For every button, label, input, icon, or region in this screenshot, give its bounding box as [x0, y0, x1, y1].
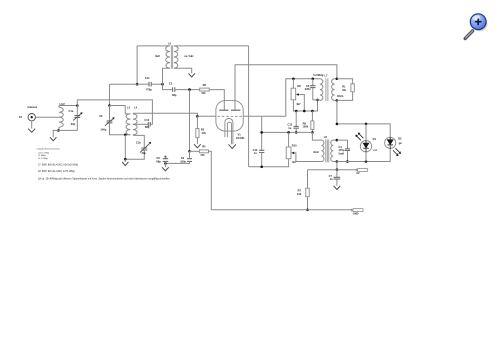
wire C11 to L5 bottom	[151, 83, 162, 85]
connector X2	[352, 209, 354, 211]
wire C1a bottom lead	[58, 117, 77, 130]
wire to R10	[288, 132, 290, 147]
capacitor C4	[345, 149, 350, 151]
core L8	[326, 140, 329, 163]
inductor L4	[133, 114, 137, 135]
potentiometer R8	[291, 88, 296, 100]
inductor L7 primary	[320, 79, 323, 101]
capacitor C3	[173, 87, 175, 92]
LED D1	[360, 141, 371, 152]
svg-text:L1/2: 1+5Wdg: L1/2: 1+5Wdg	[38, 152, 49, 154]
wire rail to R8	[292, 79, 294, 88]
svg-text:C10: C10	[144, 118, 149, 122]
junction C12 bottom	[295, 131, 298, 134]
wire S1 rail	[308, 169, 357, 171]
core L5/L6	[171, 45, 172, 69]
junction R4 left	[188, 150, 191, 153]
wire node to C2 branch	[110, 83, 138, 85]
junction D1 bottom	[365, 160, 368, 163]
ground L6	[189, 73, 195, 77]
svg-text:68p: 68p	[156, 160, 161, 164]
svg-text:10k: 10k	[297, 192, 302, 196]
wire to C4	[337, 140, 348, 149]
wire to C12	[295, 111, 297, 126]
junction C1b return	[124, 158, 127, 161]
wire R10 wiper to L8 bottom	[295, 153, 322, 162]
junction R7 return	[306, 209, 309, 212]
wire C7 to ground	[336, 179, 338, 186]
svg-text:68p: 68p	[145, 125, 150, 129]
cathode down arrow	[229, 144, 236, 148]
junction grid	[196, 115, 199, 118]
junction L8 top	[336, 139, 339, 142]
svg-text:9V: 9V	[356, 171, 359, 175]
wire L1 bottom stub	[58, 127, 60, 130]
junction C11 left	[136, 83, 139, 86]
wire L1 top to node	[59, 105, 77, 107]
junction speaker bottom	[336, 99, 339, 102]
svg-text:5+5Wdg: 5+5Wdg	[313, 73, 323, 77]
svg-text:470p: 470p	[146, 88, 152, 92]
wire C9 return	[165, 161, 189, 163]
svg-text:4k7: 4k7	[296, 102, 301, 106]
wire L5 top lead	[137, 45, 170, 47]
wire L6 bottom to ground	[174, 68, 192, 73]
svg-text:20p: 20p	[71, 122, 76, 126]
inductor L3	[126, 114, 130, 135]
svg-text:D1: D1	[373, 137, 377, 141]
svg-text:68p: 68p	[172, 93, 177, 97]
capacitor C6	[310, 86, 315, 88]
wire C2 bottom lead to L3 bottom	[110, 123, 131, 135]
resistor R4	[199, 150, 208, 153]
connector S1	[356, 169, 358, 171]
svg-text:V1: V1	[238, 133, 242, 137]
wire long rail x189	[189, 90, 191, 152]
capacitor C2	[107, 121, 113, 123]
svg-text:470p: 470p	[339, 148, 345, 152]
svg-text:220n: 220n	[305, 87, 311, 91]
svg-text:D2: D2	[398, 136, 402, 140]
svg-text:1n: 1n	[330, 177, 333, 181]
capacitor C12	[294, 126, 299, 128]
wiper arrow R10	[291, 152, 294, 155]
wire C8 bottom lead	[164, 161, 166, 163]
svg-text:47k: 47k	[202, 131, 207, 135]
ground tank	[122, 162, 128, 166]
wire to S1 rail	[336, 162, 338, 170]
magnifier zoom icon	[465, 14, 487, 39]
svg-text:C2: C2	[99, 114, 103, 118]
wire C1a top rail to C10	[77, 100, 152, 124]
wire speaker loop bottom	[337, 92, 353, 101]
wire L5 bottom lead	[163, 68, 170, 84]
D1 light arrows	[357, 134, 364, 140]
wire L3 bottom to C1b rail	[124, 135, 126, 159]
svg-text:47k: 47k	[200, 153, 205, 157]
wire R5 to ground	[196, 138, 198, 145]
wire grid to tube	[197, 115, 216, 117]
svg-text:L4: 2+2Wdg: L4: 2+2Wdg	[38, 158, 48, 160]
junction L5 bottom	[161, 83, 164, 86]
svg-text:1n: 1n	[254, 151, 257, 155]
svg-text:C1b: C1b	[136, 140, 141, 144]
wire L6 top rail	[174, 45, 249, 47]
svg-text:8Ω: 8Ω	[342, 88, 346, 92]
ground C7	[334, 186, 341, 190]
svg-text:L8 ca. 15+40Wdg auf offenem Sp: L8 ca. 15+40Wdg auf offenem Spulenkörper…	[38, 178, 170, 181]
svg-text:C3: C3	[169, 81, 173, 85]
junction speaker top	[336, 78, 339, 81]
antenna connector K1	[28, 114, 35, 121]
svg-text:L8: 5W8, 9x6 (AL=400): 2x75 4W: L8: 5W8, 9x6 (AL=400): 2x75 4Wdg	[38, 170, 75, 173]
wire R8 wiper down	[299, 95, 304, 112]
svg-text:R5: R5	[201, 127, 205, 131]
grid V1 (dashed)	[217, 115, 242, 117]
node antenna tank top	[76, 104, 79, 107]
junction C8 bottom	[164, 162, 167, 165]
wire left rail down	[136, 46, 138, 84]
svg-text:C11: C11	[145, 76, 150, 80]
wire C6 bottom	[312, 87, 314, 100]
wire C1b bottom	[125, 150, 144, 159]
wire L8 sec bottom	[333, 161, 337, 163]
triode V1 envelope	[216, 101, 243, 132]
anode plates V1	[219, 109, 240, 111]
wire R6 to left anode	[209, 90, 224, 110]
C8 top stub arrow	[164, 156, 166, 159]
wire AF node rail	[262, 131, 313, 133]
svg-text:2mH: 2mH	[313, 150, 319, 154]
svg-text:rot: rot	[373, 148, 377, 152]
cathode / heater V1	[225, 118, 233, 144]
capacitor C13	[259, 150, 264, 152]
junction C12 top	[295, 110, 298, 113]
wire speaker loop top	[337, 79, 353, 84]
svg-text:140p: 140p	[100, 128, 106, 132]
wire L4 top to grid	[133, 113, 198, 116]
junction C4 bottom	[346, 160, 349, 163]
junction C13 bottom	[260, 166, 263, 169]
wiper arrow R8	[296, 93, 299, 96]
wire right rail down	[248, 46, 250, 167]
inductor L1/2	[59, 107, 63, 127]
junction L7 return	[316, 99, 319, 102]
wire node to C3	[163, 84, 173, 89]
junction L1 bottom	[57, 129, 60, 132]
wire to C9	[189, 151, 191, 158]
svg-text:L7: 5W8, 8x8 (AL=100) 1+5+5x10: L7: 5W8, 8x8 (AL=100) 1+5+5x10 Wdg	[38, 163, 79, 166]
wire C3 to R6	[175, 89, 200, 91]
wire antenna to L1 tap	[35, 116, 59, 118]
svg-text:15k: 15k	[201, 91, 206, 95]
wire L4 tap to C10	[133, 123, 148, 125]
svg-text:R7: R7	[298, 188, 302, 192]
wire to R9	[311, 111, 313, 121]
resistor R5	[196, 129, 199, 138]
wire to R4	[190, 150, 200, 152]
wire L7 sec top	[335, 78, 337, 80]
svg-text:GND: GND	[353, 211, 359, 215]
junction LED rail left	[336, 123, 339, 126]
junction C6 top	[312, 78, 315, 81]
junction R10 top	[287, 131, 290, 134]
inductor L8 primary	[322, 140, 324, 161]
wire to R7	[307, 170, 309, 189]
wire to C11	[137, 83, 149, 85]
resistor R9	[311, 121, 314, 129]
ground L1	[50, 137, 56, 141]
wire L7 sec bottom	[335, 99, 337, 101]
wire C12 bottom	[295, 128, 297, 132]
wire C13 to AGC rail	[261, 153, 263, 167]
arrow C1a	[73, 114, 81, 121]
wire to C7	[336, 170, 338, 178]
arrow C1b	[140, 143, 150, 152]
capacitor C11	[149, 82, 151, 87]
junction C7	[336, 168, 339, 171]
ground R5	[194, 144, 201, 148]
junction R6 left	[188, 88, 191, 91]
wire L8 sec top	[333, 139, 337, 141]
svg-text:L3: 8Wdg: L3: 8Wdg	[38, 155, 46, 157]
wire anode rail to L7	[235, 65, 337, 79]
junction R9 bottom	[311, 131, 314, 134]
core L7	[326, 78, 328, 101]
svg-text:R10: R10	[292, 143, 297, 147]
D2 light arrows	[393, 148, 400, 154]
right anode wire	[234, 65, 236, 110]
LED D2	[385, 137, 396, 148]
svg-text:5mH: 5mH	[339, 152, 345, 156]
node C2 tank top	[108, 104, 111, 107]
capacitor C1a	[74, 116, 80, 118]
svg-text:R8: R8	[297, 84, 301, 88]
resistor R6	[200, 88, 210, 91]
inductor L8 secondary	[331, 140, 333, 161]
wire to ground tank	[124, 159, 126, 162]
junction L8 bottom	[336, 160, 339, 163]
wire C1a top lead	[76, 106, 78, 116]
junction R8 top	[292, 78, 295, 81]
wire D1 branch	[365, 124, 367, 162]
ground antenna	[28, 129, 35, 133]
capacitor C8	[163, 159, 169, 162]
junction L3 bottom	[124, 134, 127, 137]
wire to LED rail	[336, 100, 338, 124]
svg-text:C12: C12	[288, 122, 293, 126]
resistor RL	[351, 84, 354, 92]
wire LED loop	[337, 124, 390, 162]
resistor R7	[306, 188, 309, 197]
svg-text:ca. 5uH: ca. 5uH	[184, 54, 193, 58]
wire C2 top lead	[109, 106, 111, 121]
capacitor C9	[187, 159, 192, 162]
wire rail to C6	[312, 79, 314, 86]
wire R8 bottom net	[293, 100, 317, 111]
svg-text:gn: gn	[399, 142, 403, 145]
wire grid to R5	[196, 116, 198, 128]
wire tank top to L3 top	[110, 106, 131, 114]
svg-text:Luftspulen 8mm Durchmesser: Luftspulen 8mm Durchmesser	[37, 148, 61, 151]
inductor L6	[174, 46, 178, 68]
wire to ground C8	[164, 163, 166, 167]
wire tube out to pot rail	[243, 79, 320, 117]
wire node down to C2 tank	[109, 84, 111, 105]
junction R9 top	[311, 110, 314, 113]
wire L4 bottom to C1b	[133, 135, 144, 148]
junction wiper	[303, 110, 306, 113]
wire to L8 top	[312, 132, 321, 140]
capacitor C10	[148, 122, 150, 127]
svg-text:1u: 1u	[288, 126, 291, 130]
svg-text:20p: 20p	[142, 151, 147, 155]
wire L1 bottom to ground	[53, 130, 58, 137]
wire C4 bottom	[347, 151, 349, 162]
arrow C2	[105, 119, 113, 126]
capacitor C1b	[141, 148, 147, 150]
svg-text:ECC81: ECC81	[236, 136, 245, 140]
svg-text:Antenne: Antenne	[27, 106, 38, 109]
svg-text:C1a: C1a	[69, 109, 74, 113]
svg-text:100k: 100k	[302, 125, 308, 129]
wire L1 top stub	[58, 106, 60, 108]
wire R9 bottom	[311, 129, 313, 132]
potentiometer R10	[286, 147, 291, 159]
capacitor C7	[334, 177, 341, 179]
wire down to C13	[261, 116, 263, 150]
wire L7 bottom lead net	[313, 99, 320, 101]
junction D1 top	[365, 123, 368, 126]
ground C8	[162, 167, 169, 171]
wire R7 bottom	[307, 197, 309, 210]
svg-text:R4: R4	[202, 144, 206, 148]
svg-text:6u8: 6u8	[155, 54, 160, 58]
svg-text:Ohrh.: Ohrh.	[337, 94, 344, 98]
inductor L5	[166, 46, 170, 68]
junction coupling node	[260, 131, 263, 134]
wire antenna to ground	[31, 121, 33, 129]
wire rail to R10 bottom	[249, 159, 289, 167]
inductor L7 secondary	[332, 79, 335, 101]
svg-text:R6: R6	[203, 83, 207, 87]
wire bottom return rail	[209, 151, 352, 210]
